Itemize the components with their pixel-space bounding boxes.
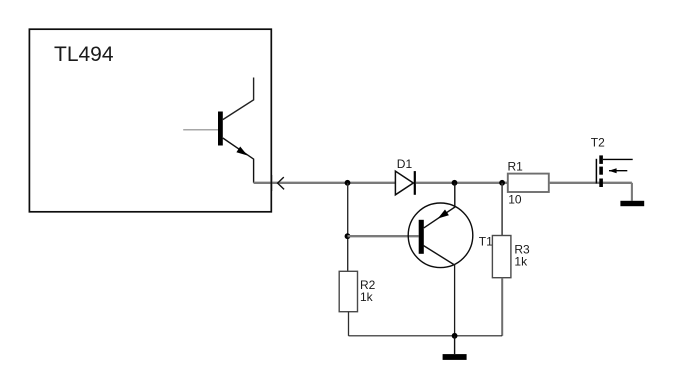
- svg-text:D1: D1: [397, 157, 413, 171]
- ground symbol at bottom rail : stem: [454, 336, 456, 354]
- label R1 value 10: [508, 193, 522, 207]
- wire : main net from TL494 emitter to diode anode: [254, 182, 396, 184]
- internal NPN transistor of TL494 : emitter arrowhead: [236, 147, 247, 156]
- wire : vertical net from node A down to R2: [347, 183, 349, 271]
- label TL494: [54, 43, 114, 66]
- transistor T1 circle: [408, 203, 473, 268]
- wire : bottom ground rail: [349, 335, 503, 337]
- label T1: [479, 234, 493, 248]
- svg-text:1k: 1k: [360, 290, 374, 304]
- wire : T2 source down to ground: [631, 183, 633, 201]
- label R3: [514, 243, 530, 257]
- ground symbol at bottom rail : bar: [443, 354, 467, 360]
- svg-text:T1: T1: [479, 234, 493, 248]
- label R2 value 1k: [360, 290, 374, 304]
- label D1: [397, 157, 413, 171]
- svg-text:TL494: TL494: [54, 43, 114, 66]
- svg-text:T2: T2: [591, 136, 605, 150]
- MOSFET T2 channel dash bottom: [599, 179, 603, 188]
- wire : base net from node D to T1 base: [348, 235, 419, 237]
- node junction dot C (x=502.1,y=182.8): [499, 180, 505, 186]
- internal NPN transistor of TL494 : collector lead: [223, 78, 254, 120]
- internal NPN transistor of TL494 : base pin stub: [183, 129, 218, 131]
- MOSFET T2 bulk arrow line: [609, 170, 627, 172]
- ground symbol at T2 source: [620, 201, 644, 206]
- transistor T1 emitter arrowhead (PNP, pointing to base): [438, 210, 449, 219]
- transistor T1 emitter lead with pin to node B: [424, 183, 455, 228]
- wire : vertical net from node C down to R3: [501, 183, 503, 236]
- open arrowhead on wire at TL494 output: [278, 177, 285, 189]
- MOSFET T2 bulk arrowhead pointing left into channel: [609, 168, 617, 173]
- resistor R1 body: [508, 174, 549, 192]
- label R3 value 1k: [514, 254, 528, 268]
- diode D1: [395, 171, 414, 195]
- node junction dot E (x=454.6,y=335.8): [452, 333, 458, 339]
- wire crossing : box right edge overdraw: [270, 175, 272, 191]
- label T2: [591, 136, 605, 150]
- transistor T1 collector lead down to bottom rail: [423, 245, 455, 336]
- MOSFET T2 gate electrode bar: [595, 159, 597, 184]
- MOSFET T2 channel dash middle: [599, 167, 603, 175]
- wire : R2 bottom to bottom rail: [348, 312, 350, 336]
- label R2: [360, 278, 376, 292]
- resistor R3 body: [492, 236, 511, 278]
- IC U1 TL494 outline box: [29, 29, 271, 212]
- transistor T1 base bar: [419, 220, 424, 254]
- MOSFET T2 drain lead: [603, 158, 633, 160]
- svg-text:1k: 1k: [514, 254, 528, 268]
- internal NPN transistor of TL494 : base bar: [218, 112, 223, 146]
- svg-text:R1: R1: [508, 160, 524, 174]
- wire : net from diode cathode to R1: [416, 182, 508, 184]
- wire : R3 bottom to bottom rail: [501, 278, 503, 336]
- node junction dot D (x=347.5,y=236.2): [345, 233, 351, 239]
- resistor R2 body: [339, 271, 357, 311]
- node junction dot B (x=454.5,y=182.8): [452, 180, 458, 186]
- node junction dot A (x=347.5,y=182.8): [345, 180, 351, 186]
- label R1: [508, 160, 524, 174]
- wire : net from R1 to T2 gate / source rail: [549, 182, 632, 184]
- MOSFET T2 channel dash top: [599, 155, 603, 164]
- internal NPN transistor of TL494 : emitter lead: [223, 138, 254, 183]
- svg-text:10: 10: [508, 193, 522, 207]
